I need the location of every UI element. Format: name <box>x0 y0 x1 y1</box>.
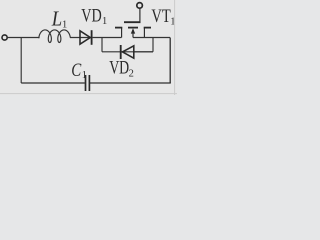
svg-text:VD: VD <box>109 58 129 79</box>
gate bar <box>124 21 141 23</box>
diode VD2 <box>120 45 122 59</box>
svg-text:2: 2 <box>129 69 134 80</box>
wire VD1 to VT1 drain <box>93 37 122 39</box>
wire VD2 branch bottom left <box>102 51 153 53</box>
figure edge (scan artifact) <box>174 0 176 95</box>
wire bottom rail right <box>90 82 171 84</box>
svg-text:1: 1 <box>62 20 67 31</box>
diode VD1 <box>80 31 90 44</box>
svg-text:1: 1 <box>82 70 87 81</box>
body arrow <box>131 28 135 33</box>
background <box>0 0 177 95</box>
body lead <box>132 30 134 38</box>
wire left branch down <box>20 38 22 84</box>
wire VD2 branch left drop <box>101 38 103 52</box>
wire VT1 source to right branch <box>133 37 170 39</box>
capacitor C1 <box>85 75 87 91</box>
wire right branch <box>169 38 171 84</box>
svg-text:C: C <box>71 60 81 81</box>
svg-text:1: 1 <box>102 16 107 27</box>
wire VD2 branch bottom right <box>135 51 154 53</box>
channel segment middle <box>128 27 138 29</box>
svg-text:VT: VT <box>151 6 171 27</box>
channel segment left <box>115 27 122 29</box>
wire bottom rail left <box>21 82 85 84</box>
gate lead <box>139 9 141 22</box>
drain connection <box>121 28 123 38</box>
wire inductor to diode VD1 <box>70 37 93 39</box>
transistor VT1 <box>115 3 151 38</box>
source connection <box>143 28 145 38</box>
svg-text:VD: VD <box>81 5 102 26</box>
inductor L1 <box>39 30 71 43</box>
gate terminal circle <box>137 3 143 9</box>
input terminal <box>2 35 7 40</box>
channel segment right <box>144 27 151 29</box>
svg-text:L: L <box>51 7 62 31</box>
wire VD2 branch right drop <box>152 38 154 52</box>
wire input to inductor <box>8 37 40 39</box>
